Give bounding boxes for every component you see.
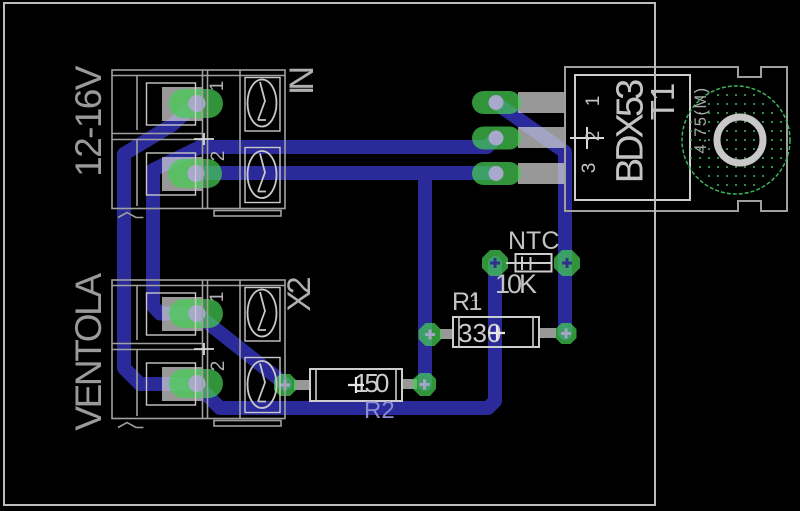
hole X1-1 xyxy=(189,95,206,112)
PAD HOLES (lavender) xyxy=(188,95,504,392)
pad NTC-1 (octagon) xyxy=(482,250,508,276)
wire branch to R1 left / R2 right (vertical x425) xyxy=(418,173,432,384)
svg-text:1: 1 xyxy=(207,292,228,303)
mounting hole restrict circle (dashed) xyxy=(682,86,790,194)
X2 outer outline xyxy=(112,280,285,419)
svg-text:12-16V: 12-16V xyxy=(68,65,109,177)
pad T1-2 xyxy=(472,127,521,150)
svg-text:VENTOLA: VENTOLA xyxy=(68,273,109,431)
T1 pin3 lead xyxy=(518,163,565,184)
hole X2-1 xyxy=(189,305,206,322)
T1 pin2 lead xyxy=(518,127,565,148)
pad T1-3 xyxy=(472,162,521,185)
svg-text:2: 2 xyxy=(583,131,604,142)
pad R2-1 (octagon) xyxy=(274,374,296,396)
R2 right lead xyxy=(402,379,417,389)
CONNECTOR X2 (VENTOLA) outline xyxy=(112,280,285,428)
pad X2-1 xyxy=(169,299,223,328)
X1 foot rail xyxy=(214,211,281,217)
NTC 10K xyxy=(471,227,559,304)
R1 body end ticks xyxy=(459,317,533,347)
X1 inner top line xyxy=(112,75,285,77)
R2 left lead xyxy=(294,380,310,390)
X1 vertical walls xyxy=(203,70,241,209)
X2 inner top line xyxy=(112,285,285,287)
pad X1-2 xyxy=(168,159,222,188)
svg-text:R2: R2 xyxy=(364,397,395,424)
X2 pad2 backing square xyxy=(162,367,203,401)
svg-text:1: 1 xyxy=(583,96,604,107)
NTC body outline xyxy=(516,254,552,272)
X1 unit walls xyxy=(136,76,138,207)
GREY PAD BACKING SQUARES AND LEADS (translucent) xyxy=(162,87,565,401)
board outline xyxy=(4,3,655,505)
X2 foot left xyxy=(118,423,144,428)
R2 body outline xyxy=(310,369,402,401)
X2 screw1 box xyxy=(245,288,280,342)
NTC symbol lines xyxy=(506,257,551,271)
wire T1 pad2 to X2 pad1 (horizontal y147 + left inner vertical) xyxy=(153,138,496,314)
X2 vertical walls xyxy=(203,280,241,419)
R1 origin cross xyxy=(489,325,505,341)
svg-text:NTC: NTC xyxy=(508,227,559,255)
svg-text:IN: IN xyxy=(283,69,321,95)
X2 screw1 head xyxy=(248,290,277,337)
svg-text:R1: R1 xyxy=(452,288,482,316)
X1 origin cross xyxy=(194,133,214,145)
wire X1 pad2 to T1 pad3 (horizontal y173) xyxy=(195,166,496,180)
T1 package outline xyxy=(565,67,787,211)
X2 screw2 head xyxy=(248,361,277,408)
X2 unit1 box xyxy=(147,293,196,335)
X1 screw2 slot xyxy=(258,154,266,192)
svg-text:150: 150 xyxy=(354,368,389,398)
T1 body outline xyxy=(575,75,690,200)
X1 foot left xyxy=(118,213,144,218)
svg-text:2: 2 xyxy=(208,151,229,162)
X1 screw1 slot xyxy=(258,82,266,120)
pad X1-1 xyxy=(169,89,223,118)
X2 origin cross xyxy=(194,343,214,355)
X2 screw2 box xyxy=(245,358,280,413)
hole T1-1 xyxy=(489,95,504,110)
GREEN PADS (translucent) xyxy=(168,89,580,398)
mounting hole dot grid xyxy=(690,94,782,186)
X1 pad2 backing square xyxy=(162,157,203,191)
X1 screw1 head xyxy=(248,80,277,127)
X2 pad1 backing square xyxy=(162,297,203,331)
wire X1 pad1 to X2 pad2 (left outer vertical) xyxy=(124,103,196,384)
pad R1-2 (octagon) xyxy=(556,323,577,344)
svg-text:2: 2 xyxy=(208,361,229,372)
pad R2-2 (octagon) xyxy=(413,373,436,396)
X2 screw1 slot xyxy=(258,292,266,330)
svg-text:1: 1 xyxy=(207,81,228,92)
hole T1-3 xyxy=(489,166,504,181)
svg-text:4.75(M): 4.75(M) xyxy=(692,86,710,153)
R2 body end ticks xyxy=(316,369,396,401)
pad NTC-2 (octagon) xyxy=(554,250,580,276)
drill cross R1-1 xyxy=(425,330,435,340)
hole X2-2 xyxy=(189,375,206,392)
CONNECTOR X1 (IN / 12-16V) outline xyxy=(112,70,285,218)
T1 origin cross xyxy=(570,127,604,149)
X2 divider lines xyxy=(112,344,203,350)
svg-text:X2: X2 xyxy=(281,277,317,311)
X1 screw2 head xyxy=(248,151,277,198)
svg-text:3: 3 xyxy=(579,163,600,174)
R1 body outline xyxy=(453,317,539,347)
wire NTC left to X2 pad2 (via bottom horizontal y407) xyxy=(196,263,495,408)
R2 origin cross xyxy=(348,377,364,393)
wire X2 pad1 to R2 left (diagonal) xyxy=(196,314,285,385)
drill cross R2-1 xyxy=(280,380,290,390)
X1 pad1 backing square xyxy=(162,87,203,121)
drill cross R2-2 xyxy=(420,380,430,390)
X1 unit1 box xyxy=(147,83,196,125)
RESISTOR R2 150 xyxy=(310,368,402,424)
hole X1-2 xyxy=(188,165,205,182)
SILKSCREEN TEXT LABELS xyxy=(68,65,321,430)
pad T1-1 xyxy=(472,91,521,114)
X1 screw1 box xyxy=(245,78,280,132)
R1 right lead xyxy=(539,328,556,338)
X2 unit walls xyxy=(136,286,138,417)
pad X2-2 xyxy=(169,369,223,398)
svg-text:10K: 10K xyxy=(495,269,537,299)
pad R1-1 (octagon) xyxy=(419,323,442,346)
drill cross NTC-2 xyxy=(562,258,572,268)
wire T1 pad1 to NTC right to R1 right (right vertical x565) xyxy=(496,103,565,333)
X2 foot rail xyxy=(214,421,281,427)
hole T1-2 xyxy=(489,131,504,146)
T1 pin1 lead xyxy=(518,92,565,113)
mounting hole ring xyxy=(717,117,763,163)
X1 unit2 box xyxy=(147,153,196,195)
RESISTOR R1 330 xyxy=(452,288,539,348)
DRILL CROSSES (small pads) xyxy=(280,258,572,390)
drill cross NTC-1 xyxy=(490,258,500,268)
X1 divider lines xyxy=(112,134,203,140)
X1 screw2 box xyxy=(245,148,280,203)
X1 outer outline xyxy=(112,70,285,209)
svg-text:T1: T1 xyxy=(644,84,681,121)
TRANSISTOR T1 BDX53 xyxy=(565,67,790,211)
R1 left lead xyxy=(440,329,454,339)
drill cross R1-2 xyxy=(561,329,571,339)
X2 screw2 slot xyxy=(258,364,266,402)
TRACES (bottom copper, blue) xyxy=(124,103,565,408)
X2 unit2 box xyxy=(147,363,196,405)
